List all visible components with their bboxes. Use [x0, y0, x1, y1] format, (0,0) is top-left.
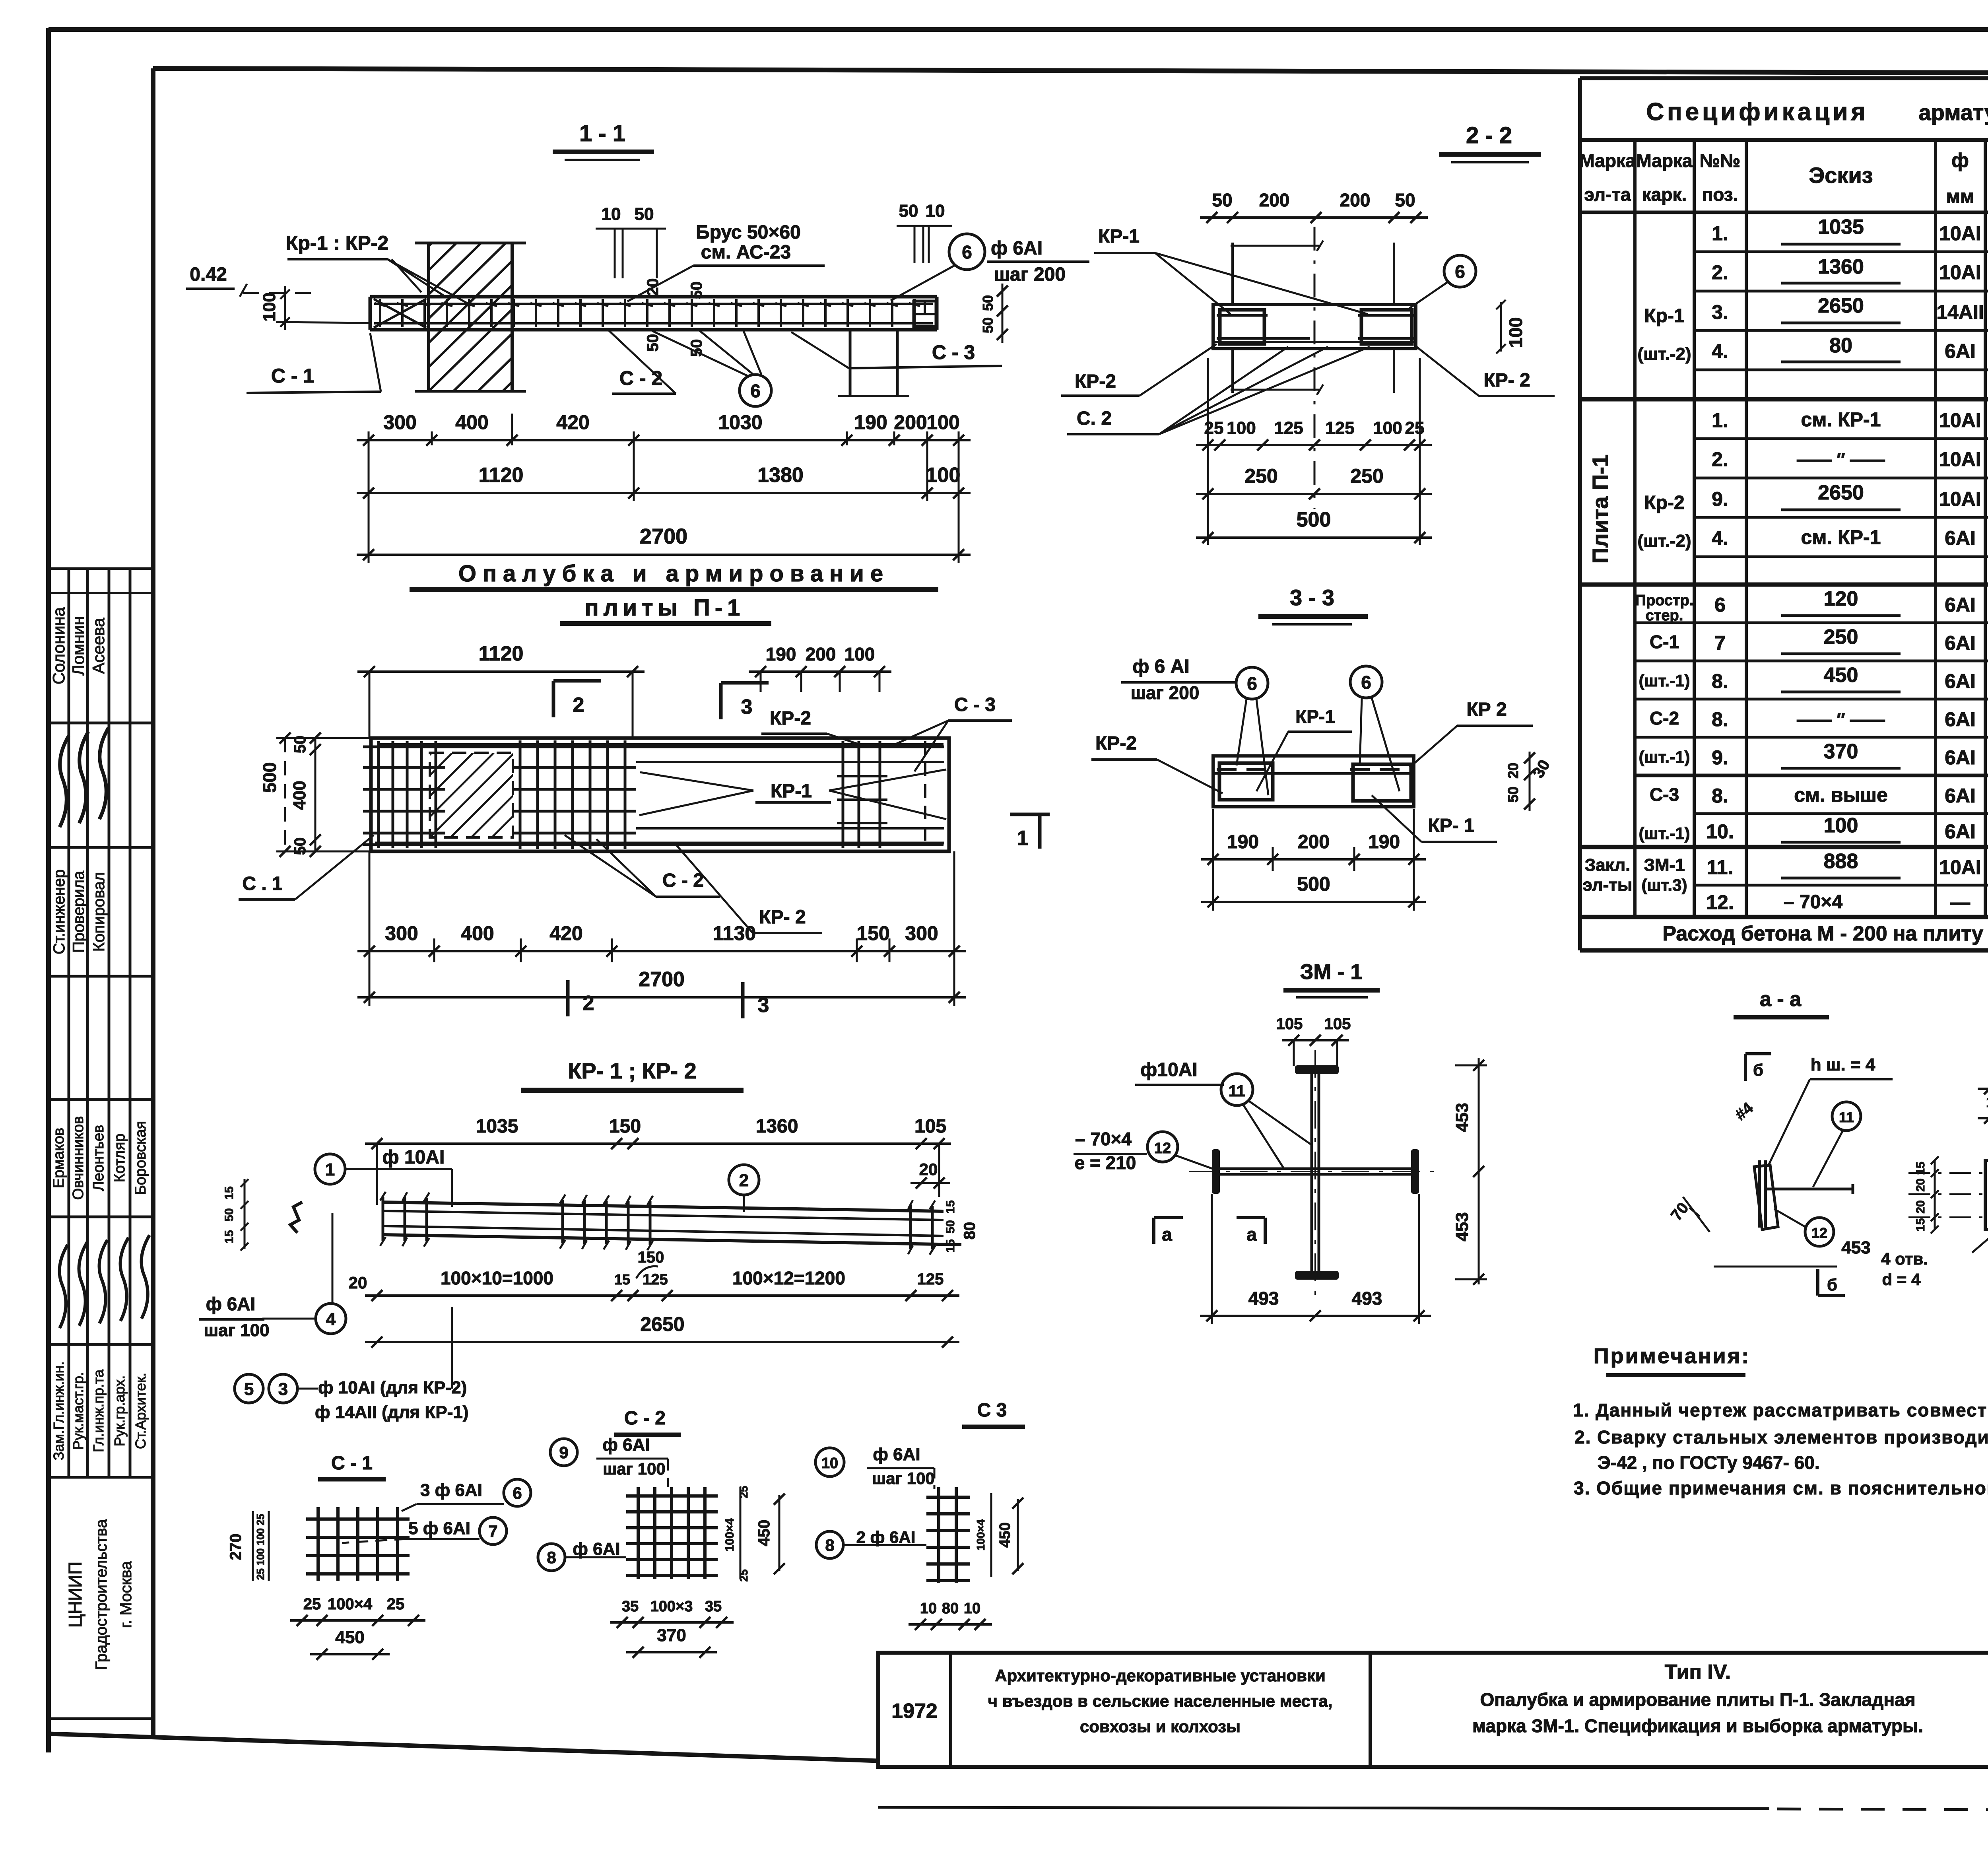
svg-text:453: 453 [1841, 1238, 1870, 1257]
svg-text:500: 500 [1297, 508, 1331, 531]
mesh C-2 bottom dims [610, 1621, 734, 1624]
svg-text:9.: 9. [1712, 746, 1728, 769]
svg-text:Плита П-1: Плита П-1 [1588, 455, 1613, 563]
svg-text:125: 125 [1274, 418, 1303, 438]
plan middle mesh C-2 [519, 740, 522, 849]
svg-text:С - 2: С - 2 [619, 367, 662, 389]
svg-text:(шт.3): (шт.3) [1642, 876, 1687, 894]
svg-text:шаг 200: шаг 200 [994, 264, 1066, 285]
svg-text:20: 20 [919, 1160, 938, 1179]
svg-text:0.42: 0.42 [190, 264, 227, 285]
svg-text:500: 500 [1297, 873, 1330, 895]
svg-text:190: 190 [854, 411, 887, 433]
beam end anchor detail [914, 301, 936, 326]
mesh C-1 left dims [252, 1511, 254, 1581]
svg-text:25: 25 [387, 1595, 405, 1613]
mesh C-3 right dims [990, 1493, 992, 1577]
mesh C-3 label 8 [816, 1531, 843, 1558]
svg-text:100: 100 [1227, 418, 1256, 438]
svg-text:105: 105 [1276, 1015, 1303, 1033]
svg-text:ф 10АI: ф 10АI [382, 1147, 445, 1168]
svg-text:1360: 1360 [1818, 255, 1864, 278]
b-b centerlines [1908, 1172, 1988, 1174]
sheet outer border [46, 28, 51, 1752]
svg-text:шаг 100: шаг 100 [872, 1469, 935, 1488]
ZM-1 cross horizontal member [1218, 1168, 1413, 1170]
ZM-1 right dims 453 453 [1478, 1058, 1480, 1284]
svg-text:370: 370 [1824, 740, 1858, 763]
section 3-3 circles 6 [1236, 667, 1268, 699]
svg-text:100: 100 [926, 464, 961, 487]
svg-text:105: 105 [914, 1116, 946, 1137]
svg-text:50: 50 [223, 1208, 236, 1221]
svg-text:150: 150 [638, 1249, 664, 1266]
title block [878, 1653, 1988, 1767]
svg-text:11: 11 [1839, 1109, 1854, 1125]
cage left-end bracket mark [290, 1202, 302, 1233]
svg-text:50: 50 [644, 334, 662, 352]
section 3-3 beam [1213, 756, 1414, 807]
svg-text:Опалубка и армирование плит: Опалубка и армирование плиты П-1. Заклад… [1480, 1689, 1915, 1710]
svg-text:4: 4 [326, 1309, 336, 1329]
svg-text:888: 888 [1824, 850, 1858, 873]
svg-text:100×4: 100×4 [723, 1518, 736, 1552]
svg-text:300: 300 [905, 922, 938, 944]
svg-text:190: 190 [1227, 831, 1259, 853]
svg-text:КР-2: КР-2 [1095, 733, 1137, 754]
svg-text:6: 6 [513, 1484, 522, 1502]
section 1-1 beam [370, 295, 937, 299]
svg-text:450: 450 [335, 1628, 364, 1647]
svg-text:10АI: 10АI [1939, 488, 1981, 510]
svg-text:15: 15 [944, 1200, 957, 1213]
svg-text:Кр-1 : КР-2: Кр-1 : КР-2 [286, 232, 388, 254]
svg-text:2.: 2. [1712, 448, 1728, 470]
b-b top dims [1978, 1088, 1988, 1090]
section 2-2 centerline [1314, 227, 1316, 509]
svg-text:25: 25 [738, 1569, 750, 1581]
svg-text:Гл.инж.пр.та: Гл.инж.пр.та [90, 1369, 107, 1452]
svg-text:г. Москва: г. Москва [117, 1561, 135, 1628]
svg-text:карк.: карк. [1642, 184, 1687, 205]
svg-text:500: 500 [259, 762, 280, 793]
svg-text:Ермаков: Ермаков [50, 1128, 67, 1188]
svg-text:120: 120 [1824, 587, 1858, 610]
svg-text:1120: 1120 [479, 464, 524, 487]
svg-text:Расход бетона М - 200 на: Расход бетона М - 200 на плиту ~ 0.05 м³ [1662, 922, 1988, 945]
svg-text:150: 150 [609, 1116, 641, 1137]
stirrup cage left [1220, 310, 1264, 344]
svg-text:Проверила: Проверила [70, 870, 87, 953]
svg-text:2 ф 6АI: 2 ф 6АI [856, 1528, 916, 1546]
svg-text:(шт.-2): (шт.-2) [1637, 531, 1691, 551]
leaders from circles [1237, 699, 1246, 765]
svg-text:Леонтьев: Леонтьев [90, 1125, 107, 1191]
svg-text:Эскиз: Эскиз [1809, 163, 1873, 188]
a-a plate detail [1758, 1160, 1761, 1228]
svg-text:80: 80 [961, 1222, 978, 1240]
svg-text:Кр-1: Кр-1 [1644, 305, 1684, 326]
svg-text:ф 6АI: ф 6АI [206, 1294, 256, 1314]
svg-text:КР- 1 ; КР- 2: КР- 1 ; КР- 2 [568, 1058, 697, 1083]
section marker 2 top [552, 681, 555, 717]
svg-text:7: 7 [1714, 632, 1726, 654]
plan plate outline [371, 738, 949, 851]
svg-text:25: 25 [1405, 418, 1425, 438]
svg-text:25: 25 [303, 1595, 321, 1613]
svg-text:10: 10 [602, 204, 621, 224]
svg-text:КР-2: КР-2 [1075, 371, 1116, 392]
svg-text:100×12=1200: 100×12=1200 [732, 1268, 845, 1288]
svg-text:105: 105 [1324, 1015, 1351, 1033]
svg-text:6: 6 [1247, 673, 1257, 694]
svg-text:1: 1 [1017, 827, 1029, 850]
svg-text:—: — [1950, 891, 1970, 913]
svg-text:20: 20 [1914, 1178, 1927, 1191]
svg-text:100: 100 [1505, 317, 1526, 348]
svg-text:100: 100 [1373, 418, 1402, 438]
svg-text:50: 50 [1395, 190, 1415, 210]
svg-text:12: 12 [1811, 1225, 1827, 1241]
section 2-2 bottom dims [1196, 444, 1432, 446]
svg-text:3: 3 [758, 994, 769, 1017]
svg-text:9.: 9. [1712, 488, 1728, 510]
svg-text:КР-1: КР-1 [1295, 706, 1335, 727]
svg-text:№№: №№ [1700, 150, 1741, 171]
svg-text:420: 420 [549, 922, 582, 944]
svg-text:20: 20 [349, 1273, 367, 1292]
svg-text:2.: 2. [1712, 261, 1728, 284]
svg-text:эл-ты: эл-ты [1583, 875, 1633, 895]
plan left vertical dims [315, 738, 316, 851]
specification table [1580, 76, 1988, 80]
svg-text:450: 450 [997, 1522, 1013, 1547]
svg-text:марка ЗМ-1. Спецификация и вы: марка ЗМ-1. Спецификация и выборка армат… [1472, 1715, 1923, 1736]
section 2-2 top dims [1200, 216, 1428, 219]
svg-text:С-2: С-2 [1650, 708, 1679, 729]
svg-text:Солонина: Солонина [49, 607, 68, 684]
svg-text:ф10АI: ф10АI [1140, 1059, 1197, 1080]
svg-text:8.: 8. [1712, 670, 1728, 692]
svg-text:250: 250 [1350, 465, 1383, 487]
svg-text:6: 6 [750, 381, 761, 401]
svg-text:1. Данный чертеж рассматри: 1. Данный чертеж рассматривать совместно… [1573, 1400, 1988, 1420]
mesh C-1 grid [316, 1507, 320, 1581]
svg-text:20: 20 [1914, 1200, 1927, 1213]
svg-text:50: 50 [980, 317, 996, 333]
svg-text:493: 493 [1352, 1288, 1382, 1309]
svg-text:200: 200 [894, 411, 927, 433]
plan bottom dims [357, 950, 966, 952]
svg-text:поз.: поз. [1702, 184, 1738, 205]
svg-text:3: 3 [278, 1379, 288, 1399]
svg-text:450: 450 [755, 1520, 773, 1546]
ZM-1 bottom dims 493 493 [1200, 1315, 1431, 1317]
svg-text:Котляр: Котляр [111, 1134, 128, 1183]
section marker 1 right [1010, 813, 1050, 816]
svg-text:КР 2: КР 2 [1466, 699, 1507, 720]
svg-text:Спецификация: Спецификация [1646, 98, 1868, 126]
svg-text:25 100 100 25: 25 100 100 25 [254, 1514, 266, 1580]
svg-text:15: 15 [223, 1186, 236, 1199]
b-b plate [1985, 1160, 1988, 1230]
svg-text:2700: 2700 [639, 968, 685, 991]
svg-text:ЦНИИП: ЦНИИП [65, 1562, 85, 1628]
KP cage bars [383, 1202, 944, 1211]
svg-text:см. КР-1: см. КР-1 [1801, 526, 1881, 548]
svg-text:50: 50 [635, 204, 654, 224]
svg-text:1.: 1. [1712, 222, 1728, 245]
plan hatched block [430, 753, 513, 837]
circle 12 [1805, 1218, 1834, 1246]
svg-text:плиты П-1: плиты П-1 [585, 595, 745, 621]
svg-text:стер.: стер. [1646, 607, 1683, 624]
svg-text:20: 20 [1505, 763, 1521, 779]
svg-text:6АI: 6АI [1945, 670, 1976, 692]
svg-text:2650: 2650 [1818, 481, 1864, 504]
svg-text:50: 50 [291, 837, 309, 855]
beam left end cross bracing (C-1 mesh in section) [374, 299, 426, 328]
svg-text:6АI: 6АI [1945, 746, 1976, 769]
svg-text:Э-42 , по ГОСТу 9467- 60.: Э-42 , по ГОСТу 9467- 60. [1598, 1452, 1820, 1473]
mesh C-3 grid [937, 1487, 940, 1583]
svg-text:10АI: 10АI [1939, 222, 1981, 245]
svg-text:1035: 1035 [476, 1116, 518, 1137]
svg-text:10: 10 [926, 201, 945, 221]
svg-text:б: б [1827, 1275, 1837, 1294]
svg-text:3 ф 6АI: 3 ф 6АI [420, 1480, 482, 1500]
svg-text:100×4: 100×4 [975, 1519, 987, 1550]
svg-text:Ст.инженер: Ст.инженер [50, 869, 68, 954]
svg-text:см. КР-1: см. КР-1 [1801, 408, 1881, 431]
svg-text:3.: 3. [1712, 301, 1728, 323]
section 3-3 bottom dims [1201, 858, 1426, 861]
svg-text:15: 15 [614, 1271, 630, 1288]
stirrup cage right [1361, 310, 1412, 344]
svg-text:С - 3: С - 3 [932, 341, 975, 363]
svg-text:ЗМ-1: ЗМ-1 [1644, 855, 1685, 875]
svg-text:КР-1: КР-1 [1098, 226, 1140, 247]
svg-text:50: 50 [899, 201, 918, 221]
svg-text:арматуры на 1 элемент: арматуры на 1 элемент [1918, 100, 1988, 125]
circle 6 with leader [1444, 255, 1476, 287]
svg-text:С - 3: С - 3 [954, 694, 996, 715]
section marker 3 bottom [741, 982, 745, 1018]
mesh C-3 labels 10 [815, 1448, 844, 1476]
svg-text:КР-1: КР-1 [771, 781, 812, 802]
svg-text:Архитектурно-декоративные уста: Архитектурно-декоративные устанoвки [995, 1666, 1326, 1685]
inner frame [151, 68, 155, 1736]
svg-text:ф 10АI (для КР-2): ф 10АI (для КР-2) [318, 1378, 467, 1397]
svg-text:КР-2: КР-2 [770, 708, 811, 729]
svg-text:Копировал: Копировал [90, 872, 108, 952]
svg-text:6АI: 6АI [1945, 527, 1976, 549]
svg-text:a: a [1246, 1224, 1257, 1245]
svg-text:1 - 1: 1 - 1 [579, 120, 625, 146]
svg-text:125: 125 [1325, 418, 1354, 438]
plan top dims [357, 670, 645, 673]
svg-text:50: 50 [944, 1220, 957, 1233]
ZM-1 centerlines [1314, 1050, 1316, 1296]
svg-text:см. выше: см. выше [1794, 784, 1888, 806]
svg-text:6АI: 6АI [1945, 820, 1976, 843]
svg-text:h ш. = 4: h ш. = 4 [1811, 1055, 1875, 1074]
svg-text:50: 50 [980, 295, 996, 311]
svg-text:6АI: 6АI [1945, 340, 1976, 362]
svg-text:3. Общие примечания см. в: 3. Общие примечания см. в пояснительной … [1574, 1478, 1988, 1498]
svg-text:ф 6АI: ф 6АI [602, 1435, 650, 1455]
svg-text:Опалубка и армирование: Опалубка и армирование [458, 561, 889, 587]
flag b top [1744, 1054, 1747, 1081]
svg-text:Тип IV.: Тип IV. [1665, 1661, 1731, 1684]
svg-text:Марка: Марка [1579, 150, 1636, 171]
svg-text:10АI: 10АI [1939, 261, 1981, 284]
svg-text:совхозы и колхозы: совхозы и колхозы [1080, 1717, 1241, 1736]
svg-text:11: 11 [1229, 1082, 1245, 1100]
svg-text:3 - 3: 3 - 3 [1290, 585, 1334, 610]
svg-text:С-3: С-3 [1650, 784, 1679, 805]
dim 100 right [1500, 302, 1502, 352]
svg-text:6АI: 6АI [1945, 594, 1976, 616]
svg-text:80: 80 [1829, 334, 1852, 357]
svg-text:100: 100 [1824, 814, 1858, 837]
svg-text:370: 370 [657, 1626, 686, 1645]
svg-text:453: 453 [1452, 1103, 1472, 1132]
svg-text:a - a: a - a [1760, 988, 1802, 1011]
svg-text:190: 190 [766, 644, 796, 664]
svg-text:2: 2 [583, 992, 594, 1015]
svg-text:– 70×4: – 70×4 [1075, 1129, 1132, 1149]
svg-text:С-1: С-1 [1650, 631, 1679, 652]
svg-text:1.: 1. [1712, 409, 1728, 431]
svg-text:Брус 50×60: Брус 50×60 [696, 222, 801, 243]
svg-text:ф 6 АI: ф 6 АI [1132, 656, 1189, 677]
svg-text:12: 12 [1154, 1140, 1171, 1157]
svg-text:—— ″ ——: —— ″ —— [1797, 450, 1885, 469]
svg-text:С 3: С 3 [977, 1400, 1007, 1421]
a-a dims [1683, 1197, 1710, 1232]
svg-text:300: 300 [385, 922, 418, 944]
svg-text:Овчинников: Овчинников [70, 1116, 87, 1200]
svg-text:250: 250 [1824, 626, 1858, 649]
mesh C-2 labels 9 [550, 1439, 577, 1466]
svg-text:20: 20 [644, 278, 662, 296]
svg-text:ЗМ - 1: ЗМ - 1 [1300, 960, 1363, 984]
svg-text:ф 6АI: ф 6АI [573, 1539, 620, 1559]
section 2-2 beam [1213, 305, 1416, 349]
b-b left dims [1934, 1160, 1936, 1230]
svg-text:6: 6 [1714, 594, 1726, 616]
svg-text:6: 6 [962, 242, 972, 262]
svg-text:10: 10 [821, 1455, 838, 1472]
svg-text:2650: 2650 [1818, 294, 1864, 317]
svg-text:1: 1 [325, 1160, 335, 1179]
svg-text:450: 450 [1824, 664, 1858, 687]
svg-text:8.: 8. [1712, 708, 1728, 730]
svg-text:КР- 2: КР- 2 [759, 907, 806, 928]
svg-text:80: 80 [942, 1600, 959, 1617]
svg-text:15: 15 [1914, 1162, 1927, 1175]
circle 2 with leader [729, 1165, 759, 1195]
svg-text:1120: 1120 [479, 642, 524, 665]
svg-text:3: 3 [741, 695, 753, 719]
svg-text:Простр.: Простр. [1635, 592, 1694, 609]
svg-text:7: 7 [488, 1522, 497, 1541]
svg-text:100×3: 100×3 [650, 1598, 693, 1615]
svg-text:e = 210: e = 210 [1075, 1152, 1136, 1173]
svg-text:ф: ф [1951, 149, 1969, 171]
svg-text:шаг 200: шаг 200 [1131, 682, 1200, 703]
circle 6 below beam [740, 375, 771, 406]
circle 1 with label [315, 1154, 345, 1184]
plan right mesh C-3 [842, 741, 845, 848]
svg-text:Зам.Гл.инж.ин.: Зам.Гл.инж.ин. [50, 1361, 67, 1460]
svg-text:1360: 1360 [756, 1116, 798, 1137]
svg-text:Марка: Марка [1636, 150, 1693, 171]
svg-text:Закл.: Закл. [1585, 855, 1631, 875]
circle 6 top right with label [949, 234, 985, 270]
svg-text:– 70×4: – 70×4 [1784, 892, 1842, 913]
plan long bars KP-2 [375, 746, 944, 748]
svg-text:100: 100 [845, 644, 875, 664]
svg-text:С - 2: С - 2 [624, 1408, 666, 1429]
svg-text:ф 6АI: ф 6АI [991, 238, 1043, 259]
svg-text:10: 10 [964, 1600, 980, 1617]
svg-text:1380: 1380 [757, 464, 804, 487]
svg-text:С . 1: С . 1 [242, 873, 282, 894]
svg-text:ф 6АI: ф 6АI [873, 1445, 920, 1464]
section marker 3 top [719, 683, 723, 719]
mesh C-2 right dims [740, 1487, 742, 1579]
svg-text:Ст.Архитек.: Ст.Архитек. [132, 1373, 149, 1449]
section 2-2 wall lines [1231, 243, 1234, 305]
svg-text:2: 2 [739, 1171, 749, 1190]
ZM-1 section flags a a [1152, 1218, 1155, 1244]
leader otv d4 [1972, 1205, 1988, 1253]
svg-text:15: 15 [1914, 1218, 1927, 1231]
svg-text:6АI: 6АI [1945, 785, 1976, 807]
svg-text:125: 125 [643, 1271, 668, 1288]
svg-text:150: 150 [856, 922, 889, 944]
svg-text:8: 8 [547, 1548, 556, 1567]
svg-text:125: 125 [917, 1271, 944, 1288]
mesh C-2 label 8 [538, 1544, 565, 1571]
svg-text:Кр-2: Кр-2 [1644, 492, 1684, 513]
svg-text:4.: 4. [1712, 340, 1728, 362]
svg-text:190: 190 [1368, 831, 1400, 853]
svg-text:ф 14АII (для КР-1): ф 14АII (для КР-1) [315, 1403, 469, 1422]
svg-text:270: 270 [227, 1534, 245, 1560]
svg-text:С - 1: С - 1 [331, 1453, 373, 1474]
mesh C-3 bottom dims [909, 1623, 992, 1626]
left signature band grid [49, 567, 153, 570]
svg-text:см. АС-23: см. АС-23 [701, 242, 791, 263]
svg-text:6: 6 [1361, 672, 1371, 693]
svg-text:15: 15 [223, 1230, 236, 1243]
svg-text:С. 2: С. 2 [1077, 408, 1112, 429]
svg-text:КР- 2: КР- 2 [1483, 370, 1530, 391]
svg-text:Боровская: Боровская [132, 1121, 149, 1195]
section 1-1 dimension rows [357, 439, 971, 441]
svg-text:400: 400 [290, 781, 309, 810]
svg-text:2650: 2650 [640, 1313, 684, 1335]
svg-text:—— ″ ——: —— ″ —— [1797, 710, 1885, 729]
svg-text:400: 400 [461, 922, 494, 944]
svg-text:100×4: 100×4 [328, 1595, 373, 1613]
KP top dims [365, 1142, 951, 1145]
svg-text:8.: 8. [1712, 785, 1728, 807]
svg-text:5: 5 [244, 1379, 254, 1399]
